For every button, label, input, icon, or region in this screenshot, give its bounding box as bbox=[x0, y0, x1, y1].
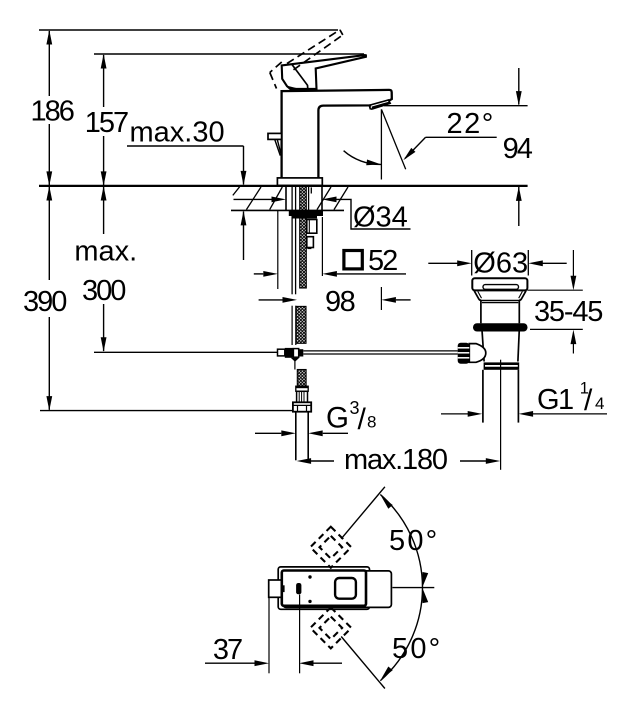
svg-text:G1: G1 bbox=[537, 384, 573, 416]
svg-text:max.30: max.30 bbox=[130, 117, 225, 149]
svg-text:/: / bbox=[584, 384, 593, 417]
svg-text:157: 157 bbox=[85, 107, 128, 139]
svg-text:94: 94 bbox=[503, 133, 533, 165]
svg-text:Ø34: Ø34 bbox=[353, 202, 408, 234]
svg-text:37: 37 bbox=[213, 634, 242, 666]
svg-text:Ø63: Ø63 bbox=[473, 248, 528, 280]
svg-text:/: / bbox=[358, 403, 367, 436]
svg-text:4: 4 bbox=[595, 394, 604, 413]
svg-text:8: 8 bbox=[367, 413, 376, 432]
svg-text:max.: max. bbox=[74, 236, 137, 268]
svg-text:52: 52 bbox=[368, 245, 397, 277]
svg-text:300: 300 bbox=[82, 275, 125, 307]
svg-text:50°: 50° bbox=[392, 633, 442, 665]
svg-text:390: 390 bbox=[23, 286, 66, 318]
svg-text:22°: 22° bbox=[447, 108, 495, 140]
svg-text:35-45: 35-45 bbox=[534, 296, 602, 328]
svg-text:186: 186 bbox=[31, 96, 74, 128]
svg-text:G: G bbox=[326, 402, 349, 435]
svg-text:max.180: max.180 bbox=[344, 444, 447, 476]
svg-text:98: 98 bbox=[325, 286, 355, 318]
svg-text:50°: 50° bbox=[389, 525, 439, 557]
